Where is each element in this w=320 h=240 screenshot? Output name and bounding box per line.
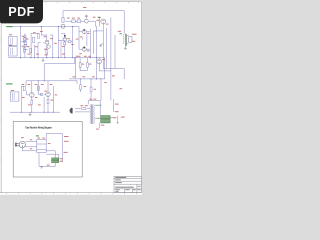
wire V2 cathode <box>46 45 48 58</box>
ground OT <box>124 46 127 49</box>
junction dots bus2 <box>80 78 102 79</box>
wire V6 grid <box>38 81 45 95</box>
capacitor coupling2 <box>40 94 43 96</box>
AC plug <box>70 108 73 114</box>
junction dots row2 <box>21 57 97 113</box>
green labels <box>6 17 122 85</box>
wire vol pot <box>50 35 53 58</box>
resistor PI1 <box>79 63 81 67</box>
tube V4 upper <box>101 19 106 24</box>
resistor plate V1 <box>33 37 35 42</box>
resistor grid3 <box>23 86 25 90</box>
resistor V1 plate <box>38 34 40 39</box>
resistor V6 cathode <box>47 99 49 103</box>
title block text <box>115 177 140 192</box>
wire socket to caps <box>46 151 58 158</box>
capacitor V1b <box>24 41 27 44</box>
wire jack2 drop <box>21 86 23 112</box>
resistor R-fb <box>62 18 64 23</box>
page background <box>0 0 149 198</box>
wire V2 plate <box>41 27 47 41</box>
green label in box <box>36 135 39 136</box>
wire V5 cathode <box>31 97 33 112</box>
heater winding top <box>95 104 101 107</box>
tube PI top <box>61 24 65 28</box>
wire riser x75.7 <box>75 58 77 79</box>
resistor PI2 <box>86 63 88 67</box>
wire main upper rail <box>8 26 79 28</box>
wire left drop <box>38 153 40 167</box>
wire top feedback rail <box>63 10 124 12</box>
resistor tone2 <box>77 20 81 23</box>
heater winding bottom <box>95 117 101 120</box>
wire PI tube bottom <box>95 30 103 32</box>
wire V1 column <box>24 34 26 58</box>
resistor V1c <box>24 45 27 47</box>
ground mid supply <box>100 44 104 47</box>
wire socket top <box>46 134 62 162</box>
fuse <box>82 108 86 110</box>
main ground bus <box>8 57 105 59</box>
wire mid2 <box>26 81 54 112</box>
wire V3 plate <box>61 34 65 37</box>
wire caps bottom <box>39 163 55 167</box>
svg-text:Tube Rectifier Wiring Diagram: Tube Rectifier Wiring Diagram <box>25 125 52 129</box>
junction dots <box>20 26 97 58</box>
resistor V1a <box>24 38 26 40</box>
tube V2a <box>45 40 49 44</box>
tube V6 <box>46 92 51 97</box>
input jack 3 <box>10 92 19 101</box>
box filter cap C4 <box>52 161 59 163</box>
resistor bias1 <box>80 85 82 90</box>
filter cap C2 <box>101 120 110 123</box>
wire drop to output transformer <box>123 11 125 34</box>
speaker jack <box>129 37 132 43</box>
wire bus2 drops <box>81 79 101 101</box>
wire standby <box>117 116 119 123</box>
wire bus2 right <box>69 58 105 79</box>
resistor V1 cathode <box>30 48 32 52</box>
wire caps to dropper <box>110 99 113 117</box>
wire tone row <box>65 15 99 27</box>
wire V3 grid <box>58 39 63 41</box>
plug pins <box>16 144 19 146</box>
wire PI drops <box>80 58 87 71</box>
input jack 1 <box>9 36 17 45</box>
filter cap C1 <box>101 116 110 119</box>
wire plug to switch <box>75 109 90 112</box>
socket verticals <box>37 140 46 153</box>
PDF badge <box>0 0 43 23</box>
ground symbol bus2 <box>29 112 32 115</box>
tube 6V6 #1 <box>82 30 86 34</box>
wire mid vertical <box>58 27 61 58</box>
wire V5 plate <box>31 81 33 93</box>
wire cap drop <box>99 123 101 128</box>
resistor tone1 <box>72 20 76 23</box>
wire tube V4b <box>99 58 111 71</box>
wire B+ horizontal <box>103 69 124 79</box>
power transformer core <box>92 104 93 124</box>
primary winding <box>89 104 92 123</box>
wire coupling1 <box>67 27 72 58</box>
red labels in box <box>21 136 69 166</box>
wire V5 grid <box>27 91 30 95</box>
tube V2b <box>47 45 51 49</box>
ground symbol bus <box>42 58 45 62</box>
wire V1 grid <box>24 45 35 58</box>
page border frame <box>0 2 142 193</box>
box filter cap C3 <box>52 158 59 160</box>
wire drop to PI <box>62 11 64 18</box>
wire tube to socket <box>22 142 37 151</box>
wire screen rail <box>93 26 96 58</box>
resistor V5 cathode <box>31 100 33 104</box>
wire input jack drop <box>20 27 22 58</box>
resistor grid1 <box>23 38 25 43</box>
wire V1 plate <box>31 32 38 35</box>
ground in box <box>40 166 43 168</box>
input jack 2 <box>9 47 17 56</box>
wire rail2 <box>26 81 77 84</box>
tube V1 small <box>24 35 26 37</box>
wire 6V6 plates <box>86 29 93 58</box>
wire V6 plate <box>47 81 49 92</box>
wire PT top <box>88 101 100 116</box>
output transformer <box>125 34 126 46</box>
wire V2 grid <box>38 43 44 58</box>
tube V3 <box>63 38 67 42</box>
wire loop to row1 <box>44 58 74 81</box>
socket horizontals <box>37 140 46 153</box>
wire right verticals <box>103 18 115 101</box>
resistor V3 cathode <box>64 42 66 45</box>
tube 6V6 #2 <box>82 47 86 51</box>
box border <box>13 121 82 177</box>
tube V5 <box>30 93 35 98</box>
resistor grid2 <box>23 48 25 53</box>
wire plate rail V1 <box>21 33 31 57</box>
resistor V2 cathode <box>46 50 48 54</box>
svg-text:PDF: PDF <box>8 5 34 19</box>
resistor mid2 <box>37 86 39 90</box>
wire V3 cathode <box>64 41 66 57</box>
resistor bias2 <box>90 87 92 92</box>
wire bus2 left <box>10 111 60 113</box>
rectifier tube <box>19 141 25 147</box>
wire 6V6 grids <box>79 27 83 50</box>
capacitor coupling1 <box>68 41 71 43</box>
tube tone mid <box>85 19 89 23</box>
wire V6 cathode <box>47 97 49 113</box>
secondary winding <box>93 104 96 123</box>
tube V4 lower <box>97 59 102 64</box>
